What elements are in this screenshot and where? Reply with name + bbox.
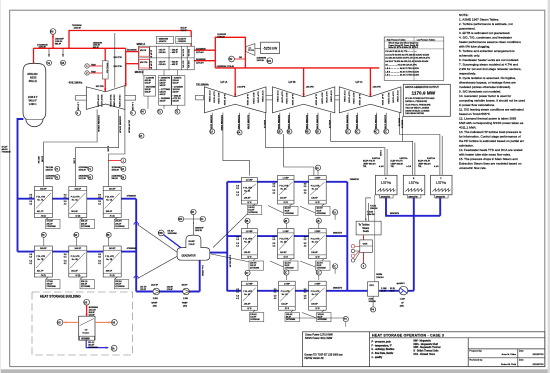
svg-text:4.2: 4.2 bbox=[64, 263, 67, 265]
LPA crossover box bbox=[196, 95, 204, 100]
svg-text:based on Tcold=555°F.: based on Tcold=555°F. bbox=[459, 112, 491, 116]
svg-text:MS ST%: MS ST% bbox=[140, 62, 148, 64]
svg-text:30.1P 1135H: 30.1P 1135H bbox=[387, 93, 389, 105]
node 72 msr bbox=[175, 109, 180, 114]
svg-text:136.6P: 136.6P bbox=[311, 252, 318, 254]
svg-text:2019/07/19: 2019/07/19 bbox=[533, 354, 545, 356]
svg-text:2C: 2C bbox=[284, 272, 287, 275]
node 58 row2 bbox=[106, 232, 111, 246]
svg-text:12. Licensed thermal power is: 12. Licensed thermal power is taken 3983 bbox=[459, 116, 517, 120]
svg-text:L DBP: L DBP bbox=[283, 178, 290, 180]
svg-text:GROSS GENERATOR OUTPUT: GROSS GENERATOR OUTPUT bbox=[405, 86, 439, 89]
svg-text:349.9P: 349.9P bbox=[40, 189, 47, 191]
node 72 hp bbox=[55, 166, 60, 171]
svg-text:TV#M: TV#M bbox=[91, 71, 96, 73]
LP stop valve trapezoid bbox=[246, 44, 255, 56]
svg-text:87.3P 1205H: 87.3P 1205H bbox=[261, 91, 263, 103]
wire HP exh left drop bbox=[44, 33, 125, 187]
svg-text:54.2P 1170H: 54.2P 1170H bbox=[281, 92, 283, 104]
svg-text:106.3P: 106.3P bbox=[244, 304, 251, 306]
label left drop bbox=[37, 146, 109, 164]
svg-text:413300M 1170H: 413300M 1170H bbox=[246, 115, 248, 130]
svg-text:No. 5A: No. 5A bbox=[106, 198, 113, 201]
svg-text:GSR: GSR bbox=[363, 243, 368, 245]
node H6 bbox=[50, 29, 56, 35]
svg-text:1278.4H: 1278.4H bbox=[217, 37, 225, 39]
svg-text:MSR A: MSR A bbox=[137, 42, 146, 46]
svg-text:MWs - Megawatts Shaft: MWs - Megawatts Shaft bbox=[414, 343, 439, 346]
label tv leak 1 bbox=[91, 64, 96, 73]
svg-text:403300M 1101H: 403300M 1101H bbox=[277, 115, 279, 130]
svg-text:HEAT STORAGE BUILDING: HEAT STORAGE BUILDING bbox=[40, 295, 81, 299]
svg-text:T-HOB: T-HOB bbox=[379, 150, 381, 157]
drain label 7A bbox=[46, 219, 61, 228]
svg-text:1030000M: 1030000M bbox=[168, 233, 178, 235]
svg-text:1063.5H: 1063.5H bbox=[46, 178, 54, 180]
svg-text:1190.3H: 1190.3H bbox=[39, 47, 47, 49]
svg-text:13. The indicated HP turbine: 13. The indicated HP turbine bowl pressu… bbox=[459, 130, 522, 134]
CP pump bbox=[399, 286, 408, 295]
svg-text:/1/ (2): /1/ (2) bbox=[110, 275, 115, 277]
feedwater heater 6A row1 bbox=[64, 187, 87, 218]
LP C extraction stubs bbox=[348, 113, 386, 129]
svg-text:/1/ 2/: /1/ 2/ bbox=[247, 308, 252, 310]
svg-text:F - temperature, °F: F - temperature, °F bbox=[372, 344, 393, 347]
node 3C lp bbox=[245, 270, 250, 275]
svg-text:4.2: 4.2 bbox=[236, 246, 239, 248]
CP labels bbox=[390, 283, 405, 308]
svg-text:L-B.C ---- ---- ----: L-B.C ---- ---- ---- 94.30 73.78% 83.32% bbox=[385, 75, 419, 77]
drain label 1C bbox=[317, 313, 332, 322]
svg-text:30.1P 1135H: 30.1P 1135H bbox=[352, 93, 354, 105]
svg-text:967.0PB: 967.0PB bbox=[96, 86, 105, 88]
box -5253 kW bbox=[261, 42, 280, 53]
svg-text:108.3P: 108.3P bbox=[244, 198, 251, 200]
svg-text:▪ 459.7F: ▪ 459.7F bbox=[171, 64, 179, 66]
node H3 bbox=[57, 320, 63, 326]
svg-text:DEAERATOR: DEAERATOR bbox=[182, 254, 196, 257]
svg-text:996.3H: 996.3H bbox=[112, 178, 119, 180]
svg-text:dyn3#S-3: dyn3#S-3 bbox=[397, 283, 405, 285]
svg-text:No. 6A: No. 6A bbox=[72, 198, 79, 201]
feedwater heater 5A row1 bbox=[98, 187, 121, 218]
svg-text:4011.11: 4011.11 bbox=[29, 80, 38, 83]
node 68 row2 bbox=[74, 232, 79, 246]
svg-text:4.2: 4.2 bbox=[29, 203, 32, 205]
svg-text:(3/3): (3/3) bbox=[400, 306, 404, 308]
svg-text:1.22H: 1.22H bbox=[400, 299, 406, 301]
LP A internal text bbox=[208, 91, 263, 106]
LPA-LPB crossover box bbox=[263, 95, 274, 100]
svg-text:/1/ (2): /1/ (2) bbox=[110, 215, 115, 217]
svg-text:11 DBP: 11 DBP bbox=[246, 231, 254, 233]
svg-text:6793000M: 6793000M bbox=[127, 248, 136, 250]
wire MSR A feed bbox=[126, 51, 139, 53]
drain label 6B bbox=[80, 280, 95, 289]
svg-text:heater performance assume clea: heater performance assume clean conditio… bbox=[459, 40, 521, 44]
svg-text:Reviewed by:: Reviewed by: bbox=[470, 360, 484, 362]
label dea inlet bbox=[195, 228, 205, 233]
svg-text:4.2: 4.2 bbox=[98, 263, 101, 265]
svg-text:2019/07/19: 2019/07/19 bbox=[533, 364, 545, 366]
svg-text:/1/ 2/: /1/ 2/ bbox=[247, 257, 252, 259]
label MSR feed bbox=[114, 50, 137, 68]
svg-text:403300M 1101H: 403300M 1101H bbox=[345, 115, 347, 130]
svg-text:3B: 3B bbox=[245, 220, 248, 223]
node 1B lp bbox=[316, 218, 321, 223]
wire B2 stub bbox=[235, 58, 246, 60]
svg-text:4.2: 4.2 bbox=[304, 246, 307, 248]
svg-text:in power flow calculations.: in power flow calculations. bbox=[459, 103, 495, 107]
wire LPC inlet bbox=[369, 68, 371, 97]
wire gfs to node bbox=[372, 296, 374, 307]
wire HP heater row2 bbox=[18, 251, 137, 253]
wire hot reheat main bbox=[215, 67, 379, 69]
svg-text:349.9P: 349.9P bbox=[40, 248, 47, 250]
svg-text:413300M 1170H: 413300M 1170H bbox=[315, 115, 317, 130]
svg-text:4470500M: 4470500M bbox=[317, 213, 327, 215]
svg-text:/1/ 2/: /1/ 2/ bbox=[315, 308, 320, 310]
svg-text:1190.3H: 1190.3H bbox=[74, 28, 82, 30]
svg-text:/1/ (2): /1/ (2) bbox=[75, 215, 80, 217]
svg-text:4A: 4A bbox=[237, 132, 240, 135]
svg-text:344.3P: 344.3P bbox=[75, 248, 82, 250]
svg-text:1100.3H: 1100.3H bbox=[257, 60, 265, 62]
svg-text:CS 140.78 38.2% 91.77% ----: CS 140.78 38.2% 91.77% ---- ---- ---- bbox=[385, 51, 417, 53]
svg-text:5750000M: 5750000M bbox=[47, 226, 57, 228]
svg-text:7763300M: 7763300M bbox=[2, 152, 11, 154]
node 2B lp bbox=[284, 218, 289, 223]
node 64 hp bbox=[121, 166, 126, 171]
wire LP heater row2 bbox=[227, 235, 347, 237]
node 78 hp bbox=[55, 175, 60, 180]
svg-text:526.3H: 526.3H bbox=[173, 101, 180, 103]
svg-text:H3B: H3B bbox=[158, 233, 163, 235]
node 2B bbox=[316, 129, 321, 134]
svg-text:with heater tube-side mass flo: with heater tube-side mass flow rates. bbox=[459, 152, 511, 156]
svg-text:No. 3B: No. 3B bbox=[244, 242, 251, 244]
MSR cell micro text bbox=[150, 49, 190, 70]
svg-text:1.52"Hg: 1.52"Hg bbox=[409, 180, 419, 184]
drain label 5B bbox=[114, 280, 129, 289]
prepared by cell bbox=[470, 350, 545, 366]
HP turbine body bbox=[86, 86, 125, 110]
svg-text:0.86TOA: 0.86TOA bbox=[427, 157, 436, 160]
svg-text:541.0F: 541.0F bbox=[145, 83, 152, 85]
node 2C bbox=[384, 129, 389, 134]
drain label 1B bbox=[316, 261, 331, 270]
svg-text:361.0F: 361.0F bbox=[71, 271, 78, 273]
node 1 bbox=[85, 64, 89, 68]
svg-text:5. Turbine and extraction a: 5. Turbine and extraction arrangement is bbox=[459, 49, 515, 53]
label hotwell drain bbox=[367, 212, 375, 217]
svg-text:RATED H₂ PRESSURE: RATED H₂ PRESSURE bbox=[405, 100, 427, 103]
svg-text:0.5: 0.5 bbox=[304, 239, 307, 241]
svg-text:H - enthalpy, Btu/lbm: H - enthalpy, Btu/lbm bbox=[372, 348, 395, 351]
svg-text:(3/3): (3/3) bbox=[153, 305, 157, 307]
labels hp extraction nodes bbox=[46, 167, 122, 180]
hot reheat loop bbox=[215, 37, 245, 68]
svg-text:▪ 533.9H: ▪ 533.9H bbox=[158, 52, 166, 54]
svg-text:P DL HTR: P DL HTR bbox=[36, 256, 45, 258]
oil heater duty box bbox=[79, 336, 94, 340]
label seals feed bbox=[370, 206, 378, 211]
wire valve to kW box bbox=[255, 48, 261, 50]
svg-text:146.0PB: 146.0PB bbox=[237, 86, 246, 88]
wire extraction to htr7A red bbox=[108, 160, 121, 162]
svg-text:2nd 163.28 94.85% 93.97% 237.2: 2nd 163.28 94.85% 93.97% 237.23 91.88% 9… bbox=[385, 58, 430, 60]
power summary cell bbox=[305, 333, 333, 340]
svg-text:P DL HTR: P DL HTR bbox=[36, 197, 45, 199]
drain label 2C bbox=[285, 313, 300, 322]
svg-text:1470500M: 1470500M bbox=[286, 319, 296, 321]
svg-text:1A: 1A bbox=[210, 131, 213, 134]
LP C extraction labels bbox=[345, 115, 385, 130]
svg-text:No. 7A: No. 7A bbox=[37, 198, 44, 201]
title block outline bbox=[303, 332, 545, 367]
node 2 bbox=[85, 71, 89, 75]
label HP inlet press bbox=[96, 86, 105, 88]
svg-text:3170000M: 3170000M bbox=[81, 226, 91, 228]
node B2 bbox=[229, 56, 235, 62]
node 4A bbox=[237, 130, 242, 135]
svg-text:102.2P: 102.2P bbox=[281, 304, 288, 306]
svg-text:2986357M: 2986357M bbox=[350, 179, 359, 181]
svg-text:P DL HTR: P DL HTR bbox=[71, 197, 80, 199]
svg-text:432.6P: 432.6P bbox=[173, 92, 180, 94]
svg-text:87.3P 1205H: 87.3P 1205H bbox=[343, 91, 345, 103]
exhaust duct LPA to condenser A bbox=[263, 113, 442, 176]
svg-text:1012.3H: 1012.3H bbox=[79, 178, 87, 180]
MSR top info box 2 bbox=[176, 36, 192, 43]
feedwater heater 3C row3 bbox=[236, 281, 257, 310]
svg-text:1103.3H: 1103.3H bbox=[195, 230, 203, 232]
drain label 3A bbox=[247, 206, 261, 215]
svg-text:1094.3H: 1094.3H bbox=[367, 214, 375, 216]
MFWP pump bbox=[153, 288, 160, 295]
svg-text:2.12M: 2.12M bbox=[107, 146, 109, 152]
GSR box bbox=[360, 240, 373, 252]
svg-text:No. 1B: No. 1B bbox=[312, 242, 319, 244]
svg-text:5310000M: 5310000M bbox=[127, 50, 137, 52]
svg-text:No. 4A: No. 4A bbox=[244, 189, 251, 192]
drain label 3C bbox=[249, 313, 263, 322]
wire deaerator outlet bbox=[210, 252, 227, 254]
svg-text:900MWt: 900MWt bbox=[81, 337, 90, 340]
svg-text:1093.2H: 1093.2H bbox=[79, 169, 87, 171]
To Turbine Steam Seals box bbox=[356, 221, 381, 235]
svg-text:▪ 533.9H: ▪ 533.9H bbox=[158, 64, 166, 66]
gray canvas edge left bbox=[0, 0, 1, 373]
svg-text:/1/ (2): /1/ (2) bbox=[41, 275, 46, 277]
svg-text:7C: 7C bbox=[333, 265, 336, 268]
svg-text:1120000M: 1120000M bbox=[115, 286, 124, 288]
svg-text:3C: 3C bbox=[355, 131, 358, 134]
condenser B ELEP text bbox=[391, 157, 412, 168]
svg-text:2B: 2B bbox=[284, 220, 287, 223]
svg-text:7H: 7H bbox=[344, 318, 347, 321]
feedwater heater 1A row1 bbox=[304, 176, 327, 205]
svg-text:0.86TOA: 0.86TOA bbox=[400, 157, 409, 160]
svg-text:MS P/4: MS P/4 bbox=[140, 50, 146, 52]
gray canvas edge bottom bbox=[0, 369, 550, 373]
label reheater supply bbox=[181, 28, 188, 32]
safety stub R6 bbox=[62, 48, 64, 57]
node 7H lp bbox=[343, 317, 348, 322]
svg-text:4170M: 4170M bbox=[41, 156, 43, 162]
wire reheater supply drop bbox=[190, 31, 192, 47]
svg-text:343.2P: 343.2P bbox=[160, 85, 167, 87]
svg-text:H6: H6 bbox=[50, 30, 54, 34]
wire heater drains hp bbox=[46, 218, 117, 280]
drain label 2A bbox=[284, 206, 299, 215]
svg-text:2B: 2B bbox=[316, 131, 319, 134]
svg-text:2430000M 1278.4H: 2430000M 1278.4H bbox=[217, 66, 235, 68]
node 1 red bbox=[121, 158, 126, 163]
svg-text:146.0PB: 146.0PB bbox=[373, 86, 382, 88]
svg-text:HEAT STORAGE OPERATION - CASE: HEAT STORAGE OPERATION - CASE 3 bbox=[372, 334, 444, 338]
svg-text:volumetric flow rate.: volumetric flow rate. bbox=[459, 166, 487, 170]
wire main steam header bbox=[34, 47, 126, 49]
svg-text:MW - Megawatts: MW - Megawatts bbox=[414, 340, 432, 343]
node 7A lp bbox=[333, 210, 338, 215]
svg-text:332.3P: 332.3P bbox=[181, 30, 188, 32]
label feedwater left bbox=[2, 147, 11, 154]
svg-text:1.5H 1058: 1.5H 1058 bbox=[131, 102, 133, 111]
line hop bumps on riser bbox=[134, 222, 139, 278]
svg-text:30.1P 1135H: 30.1P 1135H bbox=[252, 93, 254, 105]
node 78 row2 bbox=[41, 232, 46, 246]
svg-text:0.5: 0.5 bbox=[274, 292, 277, 294]
svg-text:1133000M 1088H: 1133000M 1088H bbox=[220, 115, 222, 131]
node 68 hp bbox=[88, 175, 93, 180]
node MS dea bbox=[178, 216, 183, 221]
svg-text:146.0PB: 146.0PB bbox=[306, 86, 315, 88]
svg-text:6793000M: 6793000M bbox=[127, 195, 136, 197]
svg-text:1470500M: 1470500M bbox=[285, 213, 295, 215]
node 3A hsb bbox=[111, 345, 117, 351]
svg-text:0.86TOA: 0.86TOA bbox=[372, 157, 381, 160]
svg-text:1094.3H: 1094.3H bbox=[370, 208, 378, 210]
label hot reheat bbox=[217, 34, 227, 38]
feedwater heater 2A row1 bbox=[273, 176, 295, 205]
HP exhaust box right bbox=[125, 96, 136, 101]
node M4 bbox=[267, 58, 273, 64]
svg-text:RH2 4%: RH2 4% bbox=[187, 61, 189, 68]
node 64 msr bbox=[141, 109, 146, 114]
svg-text:408.3MWs: 408.3MWs bbox=[69, 81, 83, 85]
svg-text:3. EFTB is estimated not gu: 3. EFTB is estimated not guaranteed. bbox=[459, 31, 510, 35]
GFS vent line bbox=[374, 195, 376, 282]
svg-text:P DL HTR: P DL HTR bbox=[311, 239, 320, 241]
svg-text:4.2: 4.2 bbox=[236, 298, 239, 300]
svg-text:7A: 7A bbox=[333, 211, 336, 214]
wire MSR B feed bbox=[126, 63, 139, 65]
svg-text:4. S/G, T/G, condenser, and: 4. S/G, T/G, condenser, and feedwater bbox=[459, 35, 512, 39]
node 1B bbox=[277, 129, 282, 134]
svg-text:Date: Date bbox=[519, 350, 524, 353]
svg-text:281.4P 1100H: 281.4P 1100H bbox=[109, 95, 111, 108]
MSR drain box 3 bbox=[172, 76, 185, 106]
svg-text:3.02M 243.3H: 3.02M 243.3H bbox=[229, 255, 231, 268]
svg-text:1301.0MVA RATING: 1301.0MVA RATING bbox=[405, 112, 424, 115]
svg-text:for information. Control stage: for information. Control stage performan… bbox=[459, 134, 521, 138]
svg-text:4.2: 4.2 bbox=[273, 246, 276, 248]
node S1 bbox=[47, 60, 52, 65]
LP A extraction stubs bbox=[212, 113, 265, 176]
svg-text:HTR 5M: HTR 5M bbox=[37, 156, 39, 164]
svg-text:P DL HTR: P DL HTR bbox=[243, 291, 252, 293]
node HP left exh bbox=[76, 110, 81, 115]
HP below-shell text bbox=[77, 102, 133, 133]
svg-text:421.7F: 421.7F bbox=[37, 211, 44, 213]
svg-text:0.5: 0.5 bbox=[236, 239, 239, 241]
gsr side taps bbox=[351, 245, 360, 262]
feedwater heater 1B row2 bbox=[304, 229, 327, 259]
svg-text:/1/ 2/: /1/ 2/ bbox=[315, 257, 320, 259]
wire H3B to deaerator bbox=[164, 235, 181, 248]
svg-text:P DL HTR: P DL HTR bbox=[105, 197, 114, 199]
svg-text:Low Pressure Turbine: Low Pressure Turbine bbox=[417, 38, 435, 41]
svg-text:UEEP 983.3H: UEEP 983.3H bbox=[418, 163, 431, 165]
svg-text:14.4P 1101H: 14.4P 1101H bbox=[358, 94, 360, 106]
svg-text:11 HBP: 11 HBP bbox=[246, 283, 254, 285]
svg-text:M4: M4 bbox=[267, 59, 271, 63]
svg-text:Anna M. Kluba: Anna M. Kluba bbox=[502, 353, 517, 356]
svg-text:kWh - Kilowatt Hours: kWh - Kilowatt Hours bbox=[414, 353, 436, 356]
svg-text:54.2P 1170H: 54.2P 1170H bbox=[213, 92, 215, 104]
svg-text:/1/ 2/: /1/ 2/ bbox=[285, 308, 290, 310]
svg-text:9. S/G blowdown not modeled: 9. S/G blowdown not modeled. bbox=[459, 89, 501, 93]
svg-text:417.9P 1125H: 417.9P 1125H bbox=[97, 95, 99, 108]
node H6 hsb bbox=[112, 320, 118, 326]
node 3B bbox=[287, 129, 292, 134]
MSR grid outline bbox=[138, 46, 194, 70]
node 2 gsr bbox=[361, 264, 366, 269]
wire valve leak 2 bbox=[89, 72, 102, 74]
svg-text:NOTE:: NOTE: bbox=[459, 13, 469, 17]
label MSR out upper bbox=[196, 48, 206, 54]
node 1A bbox=[210, 129, 215, 134]
label H3B line bbox=[168, 230, 178, 235]
label upper header flow bbox=[72, 25, 82, 30]
svg-text:1063.3H: 1063.3H bbox=[112, 169, 120, 171]
node 1A lp bbox=[315, 165, 320, 170]
svg-text:P DL HTR: P DL HTR bbox=[243, 188, 252, 190]
svg-text:108.3P: 108.3P bbox=[244, 252, 251, 254]
LPB-LPC crossover box bbox=[327, 95, 342, 100]
svg-text:3000000M: 3000000M bbox=[88, 347, 98, 349]
svg-text:2430000M: 2430000M bbox=[196, 59, 206, 61]
HP exhaust box left bbox=[76, 96, 87, 101]
svg-text:(3/3): (3/3) bbox=[183, 305, 187, 307]
svg-text:GFS: GFS bbox=[369, 285, 374, 287]
svg-text:1B: 1B bbox=[317, 220, 320, 223]
deaerator vessel bbox=[177, 235, 210, 260]
svg-text:▪ 459.7F: ▪ 459.7F bbox=[171, 52, 179, 54]
condenser C ELEP text bbox=[418, 157, 439, 168]
svg-text:/1/ (2): /1/ (2) bbox=[41, 215, 46, 217]
svg-text:P DL HTR: P DL HTR bbox=[105, 256, 114, 258]
svg-text:diversionary bypass, or leaka: diversionary bypass, or leakage flows ar… bbox=[459, 80, 516, 84]
node 58 hp bbox=[121, 175, 126, 180]
wire HP stop valve drop bbox=[104, 48, 106, 61]
hotwell drain line to seals bbox=[365, 198, 367, 222]
svg-text:54.2P 1170H: 54.2P 1170H bbox=[325, 92, 327, 104]
svg-text:Date: Date bbox=[519, 359, 524, 362]
svg-text:MSRDTX: MSRDTX bbox=[328, 120, 330, 129]
svg-text:363.3P 1113H: 363.3P 1113H bbox=[100, 95, 102, 108]
